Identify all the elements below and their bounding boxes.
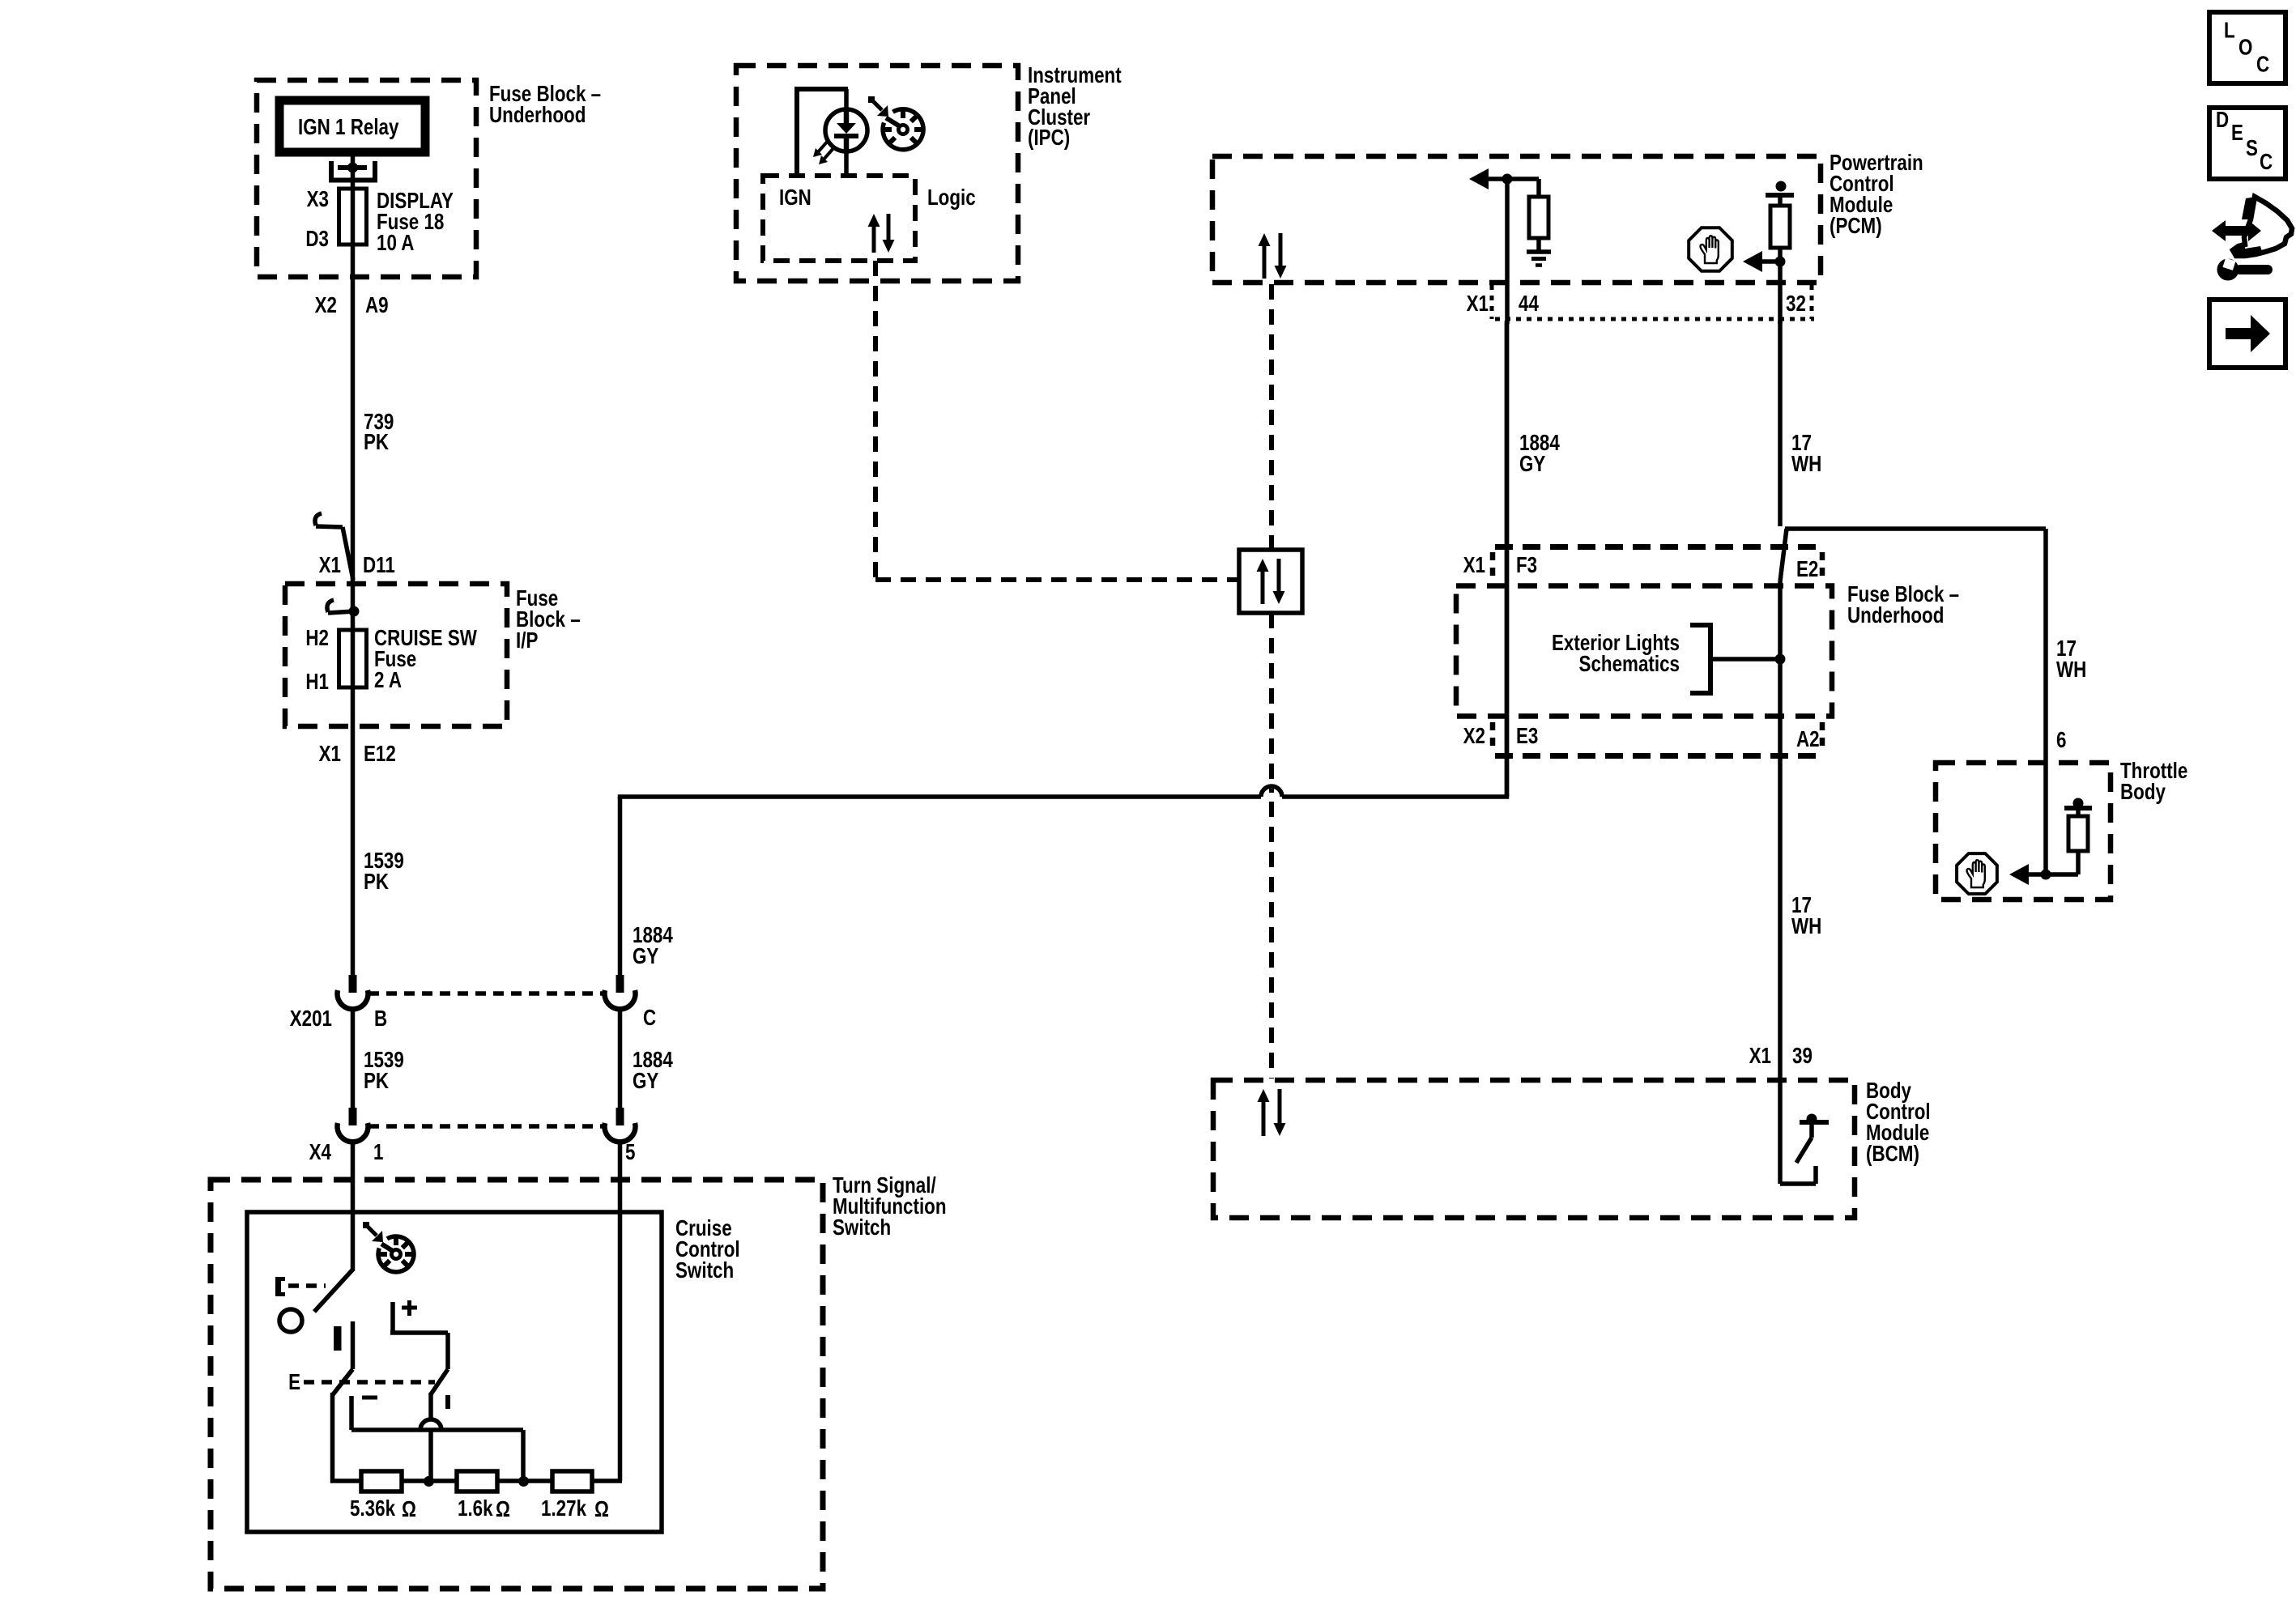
- connector X4 row line: [368, 1124, 603, 1129]
- svg-text:GY: GY: [1519, 452, 1545, 477]
- svg-text:E3: E3: [1516, 724, 1538, 749]
- svg-text:X1: X1: [1463, 553, 1485, 578]
- svg-text:(PCM): (PCM): [1830, 214, 1882, 239]
- serial data junction box: [1239, 550, 1302, 613]
- label DISPLAY Fuse 18 10 A: [377, 189, 454, 256]
- junction dot R1-R2: [424, 1476, 434, 1487]
- X2/E3/A2 pin row: [1493, 722, 1825, 756]
- svg-text:X1: X1: [319, 553, 341, 578]
- PCM pin32 resistor: [1770, 195, 1790, 324]
- wire pin5 riser: [618, 1141, 623, 1481]
- resistor R1 5.36k: [361, 1471, 402, 1491]
- throttle body box: [1936, 763, 2111, 900]
- wire into fuse block I/P: [351, 581, 356, 630]
- label IGN: [779, 185, 811, 211]
- instrument panel cluster box: [736, 66, 1018, 281]
- wire 1884 GY to C: [618, 1008, 623, 1108]
- label X1 / 39 (BCM pins): [1749, 1044, 1813, 1069]
- wire slant at E2: [1780, 529, 1787, 581]
- wire set/coast contact: [351, 1396, 523, 1481]
- svg-text:H2: H2: [305, 626, 329, 651]
- contact bar: [334, 1326, 342, 1351]
- junction dot R2-R3: [518, 1476, 529, 1487]
- wire resume/accel: [390, 1302, 448, 1419]
- label X2 / A9: [315, 293, 389, 318]
- wire LED left leg: [797, 89, 848, 177]
- svg-text:5: 5: [625, 1140, 635, 1165]
- svg-text:GY: GY: [633, 1069, 658, 1094]
- svg-text:H1: H1: [305, 670, 329, 695]
- label Fuse Block Underhood: [489, 82, 601, 128]
- svg-text:PK: PK: [364, 1069, 390, 1094]
- connector X201 pin B cup: [338, 975, 368, 1009]
- svg-text:I/P: I/P: [516, 628, 538, 653]
- svg-text:C: C: [643, 1006, 656, 1031]
- icon forward arrow box: [2209, 300, 2285, 368]
- switch blade set/coast: [333, 1321, 353, 1395]
- F3/E2 pin row: [1493, 547, 1825, 581]
- svg-text:WH: WH: [2056, 657, 2086, 683]
- PCM pin44 internal: arrow out: [1469, 168, 1508, 189]
- svg-text:1.6k: 1.6k: [458, 1496, 493, 1521]
- svg-text:X1: X1: [319, 742, 341, 767]
- svg-text:X2: X2: [315, 293, 337, 318]
- label X1 / D11: [319, 553, 395, 578]
- turn signal/multifunction switch box: [211, 1180, 823, 1589]
- PCM pin32 arrow to hand: [1743, 251, 1786, 272]
- svg-text:X4: X4: [309, 1140, 331, 1165]
- svg-text:5.36k: 5.36k: [350, 1496, 396, 1521]
- contact circle: [279, 1309, 302, 1332]
- wire E2 to A2: [1778, 581, 1783, 1079]
- svg-text:Underhood: Underhood: [489, 103, 586, 128]
- PCM pull-up resistor: [1507, 179, 1548, 252]
- svg-text:Switch: Switch: [675, 1258, 734, 1283]
- svg-text:Switch: Switch: [833, 1215, 891, 1240]
- label Logic: [927, 185, 976, 211]
- label H2: [305, 626, 329, 651]
- BCM switch blade: [1796, 1114, 1829, 1164]
- svg-text:Ω: Ω: [496, 1497, 510, 1522]
- svg-text:E: E: [288, 1370, 300, 1395]
- svg-text:PK: PK: [364, 870, 390, 895]
- svg-text:O: O: [2238, 35, 2252, 60]
- switch blade on/off: [314, 1270, 353, 1312]
- cruise control switch box: [247, 1212, 662, 1532]
- svg-text:(BCM): (BCM): [1866, 1142, 1919, 1167]
- label X3: [307, 187, 329, 212]
- svg-text:X2: X2: [1463, 724, 1485, 749]
- connector X201 row line: [368, 991, 603, 996]
- svg-text:E12: E12: [364, 742, 396, 767]
- svg-text:Ω: Ω: [594, 1497, 609, 1522]
- svg-text:6: 6: [2056, 728, 2066, 753]
- relay IGN 1 Relay: [279, 100, 425, 152]
- wire fuse out: [351, 687, 356, 761]
- label X4 / 1 / 5: [309, 1140, 636, 1165]
- resistor chain base wire: [330, 1478, 622, 1483]
- svg-text:B: B: [374, 1006, 387, 1032]
- wire LED right leg: [844, 151, 849, 177]
- svg-text:1.27k: 1.27k: [541, 1496, 587, 1521]
- stop hand (throttle): [1957, 853, 1997, 894]
- label 17 WH (throttle): [2056, 636, 2086, 683]
- resistor R3 1.27k: [552, 1471, 592, 1491]
- label 1539 PK lower: [364, 1048, 404, 1094]
- label Cruise Control Switch: [675, 1216, 740, 1283]
- wire 1884 GY riser to horizontal: [618, 797, 623, 975]
- wire pin1 into switch: [351, 1141, 356, 1271]
- throttle arrow line: [2009, 864, 2078, 885]
- label 5.36k ohm: [350, 1496, 416, 1522]
- wire 1539 PK lower: [351, 1008, 356, 1108]
- PCM pin row: [1492, 285, 1814, 319]
- svg-text:32: 32: [1786, 291, 1806, 317]
- minus sign: [362, 1396, 377, 1400]
- svg-text:A9: A9: [365, 293, 389, 318]
- fuse CRUISE SW 2A: [339, 630, 367, 687]
- main horizontal wire: [618, 794, 1510, 799]
- serial data arrows (BCM): [1258, 1089, 1286, 1136]
- svg-text:2 A: 2 A: [374, 668, 402, 693]
- svg-text:D: D: [2216, 108, 2229, 133]
- stop hand (PCM): [1689, 228, 1732, 271]
- svg-text:A2: A2: [1796, 727, 1820, 752]
- connector clip H2: [327, 600, 360, 617]
- connector clip X1/D11: [315, 513, 353, 580]
- label Fuse Block I/P: [516, 586, 581, 653]
- svg-text:IGN 1 Relay: IGN 1 Relay: [298, 115, 398, 140]
- svg-text:Body: Body: [2120, 780, 2166, 805]
- svg-text:1: 1: [373, 1140, 383, 1165]
- wire hop to resistor junction: [428, 1430, 433, 1481]
- svg-text:44: 44: [1519, 291, 1539, 317]
- label X2 / E3 / A2 (row): [1463, 724, 1820, 752]
- exterior lights callout: [1552, 625, 1785, 693]
- fuse F18 DISPLAY 10A: [339, 189, 367, 245]
- crossover hop (main wire): [1261, 786, 1282, 797]
- wire 1539 PK: [351, 761, 356, 975]
- wire 17 WH from pin32: [1778, 321, 1783, 526]
- svg-text:X1: X1: [1467, 291, 1489, 317]
- label X1 / F3 / E2 (row): [1463, 553, 1819, 582]
- PCM pin44 junction dot: [1502, 174, 1513, 185]
- dashed serial wire from IPC: [875, 261, 1239, 580]
- label Body Control Module (BCM): [1866, 1079, 1931, 1167]
- svg-text:L: L: [2224, 18, 2235, 43]
- wire F3 through block: [1505, 321, 1510, 797]
- icon adjust (hand, double arrow, wrench): [2212, 197, 2292, 281]
- label 17 WH (A2-BCM): [1791, 893, 1821, 939]
- label 6 (throttle pin): [2056, 728, 2066, 753]
- svg-text:WH: WH: [1791, 452, 1821, 477]
- PCM pin44 wire: [1505, 179, 1510, 324]
- powertrain control module box: [1212, 156, 1821, 283]
- svg-text:C: C: [2256, 52, 2269, 77]
- plus sign: [402, 1300, 417, 1316]
- svg-text:IGN: IGN: [779, 185, 811, 211]
- position mark E with dashes: [288, 1370, 435, 1395]
- label 1.6k ohm: [458, 1496, 510, 1522]
- svg-text:(IPC): (IPC): [1028, 126, 1070, 151]
- icon LOC box: [2209, 12, 2285, 83]
- resistor R2 1.6k: [457, 1471, 497, 1491]
- gauge icon (IPC): [868, 96, 923, 150]
- svg-text:Schematics: Schematics: [1579, 652, 1680, 677]
- svg-text:E2: E2: [1796, 557, 1818, 582]
- position mark I with dashes: [275, 1277, 326, 1296]
- wire blade to resistor row: [330, 1393, 335, 1483]
- wire 1884 GY to F3: [1505, 322, 1510, 797]
- svg-text:10 A: 10 A: [377, 231, 414, 256]
- svg-text:Logic: Logic: [927, 185, 976, 211]
- icon DESC box: [2209, 108, 2285, 179]
- label H1: [305, 670, 329, 695]
- svg-text:X201: X201: [290, 1006, 332, 1032]
- svg-text:Ω: Ω: [402, 1497, 416, 1522]
- label Throttle Body: [2120, 759, 2187, 805]
- wire fuse to X2/A9: [351, 245, 356, 372]
- dashed serial wire PCM to junction box: [1269, 284, 1274, 550]
- serial data arrows (PCM): [1259, 233, 1287, 279]
- svg-text:C: C: [2260, 150, 2273, 175]
- svg-text:WH: WH: [1791, 914, 1821, 939]
- fuse block I/P box: [285, 584, 507, 726]
- label 1884 GY upper: [633, 923, 673, 969]
- PCM pin32 internal rail: [1766, 181, 1794, 196]
- svg-text:S: S: [2246, 136, 2258, 161]
- contact tick right: [445, 1395, 450, 1409]
- svg-text:Underhood: Underhood: [1847, 603, 1944, 628]
- connector X4 pin 1 cup: [338, 1108, 368, 1142]
- wire 739 PK: [351, 372, 356, 581]
- fuse block underhood (right) box: [1456, 586, 1832, 717]
- label X1 / 44 / 32 (PCM pins): [1467, 291, 1806, 317]
- label CRUISE SW Fuse 2 A: [374, 626, 477, 693]
- label 17 WH (PCM): [1791, 431, 1821, 477]
- BCM pin39 wire and contact: [1780, 1079, 1816, 1184]
- svg-text:D3: D3: [305, 227, 329, 252]
- throttle position sensor resistor: [2064, 798, 2092, 875]
- svg-text:GY: GY: [633, 944, 658, 969]
- body control module box: [1213, 1080, 1855, 1218]
- svg-text:X3: X3: [307, 187, 329, 212]
- label X1 / E12: [319, 742, 396, 767]
- gauge icon (cruise switch): [363, 1222, 414, 1272]
- svg-text:39: 39: [1792, 1044, 1813, 1069]
- LED indicator: [813, 109, 867, 164]
- svg-text:F3: F3: [1516, 553, 1537, 578]
- relay contact symbol: [331, 152, 375, 189]
- svg-text:E: E: [2231, 121, 2243, 146]
- label X201 / B / C: [290, 1006, 656, 1032]
- crossover hop (switch): [420, 1419, 441, 1430]
- svg-text:D11: D11: [363, 553, 395, 578]
- label 1884 GY (PCM): [1519, 431, 1560, 477]
- ground (PCM): [1527, 252, 1551, 266]
- label 739 PK: [364, 410, 394, 455]
- label D3: [305, 227, 329, 252]
- dashed serial wire junction box to BCM: [1269, 613, 1274, 1079]
- svg-text:PK: PK: [364, 430, 390, 455]
- label Fuse Block Underhood (right): [1847, 582, 1959, 628]
- connector X4 pin 5 cup: [605, 1108, 636, 1142]
- fuse block underhood (left) box: [257, 80, 476, 277]
- wire branch to throttle body: [1785, 529, 2046, 874]
- label 1.27k ohm: [541, 1496, 609, 1522]
- label Turn Signal Multifunction Switch: [833, 1173, 947, 1240]
- connector X201 pin C cup: [605, 975, 636, 1009]
- label 1884 GY lower: [633, 1048, 673, 1094]
- svg-text:X1: X1: [1749, 1044, 1771, 1069]
- serial data arrows (IGN): [868, 214, 895, 253]
- label Powertrain Control Module (PCM): [1830, 151, 1923, 239]
- label 1539 PK: [364, 849, 404, 895]
- IGN sub-box: [763, 176, 915, 261]
- serial data arrows (junction box): [1257, 559, 1285, 604]
- label Instrument Panel Cluster (IPC): [1028, 63, 1122, 151]
